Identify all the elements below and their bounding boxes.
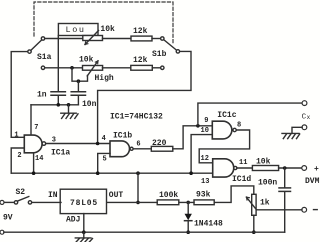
wire bottom ground rail [4,231,285,233]
svg-text:10n: 10n [82,100,97,109]
node 1k-rail [252,230,256,234]
wire IC1c pin10 [191,135,212,174]
label box Lou [58,24,98,36]
svg-text:OUT: OUT [109,191,124,200]
svg-text:7: 7 [34,124,38,132]
nand gate IC1b [110,141,133,157]
wire IC1c out loop to IC1d pin12 [199,130,249,163]
svg-text:220: 220 [152,139,167,148]
wire rail to 78L05 out [137,173,139,202]
ground symbol top-right [282,133,300,138]
wire S2 to 78L05 in [32,201,61,203]
wire Cx bottom to ground [292,127,302,133]
ground symbol bottom [75,232,92,242]
node 1n-rail [57,103,61,107]
diode 1N4148 [185,202,192,232]
node junction High row [70,66,74,70]
node pin9 [196,124,200,128]
node diode tap [186,201,190,205]
node 100n tap [283,166,287,170]
svg-text:1N4148: 1N4148 [194,220,223,229]
wire 1n cap branch vertical [57,36,59,92]
resistor 93k [194,200,214,205]
svg-text:5: 5 [103,156,107,164]
node pin10-rail [189,171,193,175]
wire IC1a out to IC1b pin4 [46,143,110,145]
battery 9V terminals [0,200,4,204]
wire High row mid [102,67,130,69]
wire ground rail mid (pin13) [11,172,213,174]
wire S1b common to IC1b pin4 node [98,51,191,143]
svg-text:S2: S2 [16,188,26,197]
wire IC1b out [133,148,151,150]
svg-text:IC1b: IC1b [113,132,132,141]
potentiometer 10k Low [83,31,103,45]
capacitor 1n [51,92,65,105]
wire Low row right [152,38,161,40]
svg-text:2: 2 [17,152,21,160]
potentiometer 10k High [83,61,103,76]
nand gate IC1a [24,135,45,153]
capacitor 100n [279,168,291,232]
node 10n tap [77,79,81,83]
wire battery to S2 [4,201,14,203]
wire 78L05 out to 100k [107,201,158,203]
svg-text:1k: 1k [260,199,270,208]
wire High row right [152,67,160,69]
svg-text:9V: 9V [3,213,13,222]
svg-text:9: 9 [204,117,208,125]
node ADJ-rail [82,230,86,234]
resistor 10k output [252,166,278,171]
wire High pot wiper tie [72,68,88,81]
resistor 12k Low [131,36,152,41]
wire IC1a pin2 [11,148,24,173]
svg-text:14: 14 [35,155,43,163]
svg-text:13: 13 [201,178,209,186]
svg-text:Lou: Lou [66,25,86,35]
node diode-rail [186,230,190,234]
svg-text:ADJ: ADJ [66,216,80,225]
svg-text:10k: 10k [256,157,271,166]
svg-text:IN: IN [48,191,58,200]
node pin5-rail [96,171,100,175]
svg-text:1: 1 [14,132,18,140]
terminal + [302,166,307,171]
terminal - [302,207,307,212]
node out wire [136,201,140,205]
svg-text:S1a: S1a [37,53,52,62]
node out-rail [136,171,140,175]
svg-text:12: 12 [201,155,209,163]
svg-text:100n: 100n [258,178,277,187]
wire IC1a pin7 [30,105,32,135]
svg-text:8: 8 [237,122,241,130]
svg-text:93k: 93k [196,190,211,199]
svg-text:DVM: DVM [305,177,320,186]
svg-text:10k: 10k [100,25,115,34]
resistor 12k High [131,65,153,70]
nand gate IC1c [212,121,236,139]
wire 1k bottom [253,215,255,232]
switch S1b [161,37,180,70]
wire High row left [45,67,83,69]
svg-text:10k: 10k [79,55,94,64]
terminal Cx top [302,101,307,106]
svg-text:1n: 1n [37,91,47,100]
potentiometer 1k [246,194,256,215]
wire Low row left [45,38,83,40]
voltage regulator 78L05 [60,189,106,213]
svg-text:100k: 100k [159,191,178,200]
svg-text:IC1d: IC1d [232,175,251,184]
svg-text:x: x [307,114,311,121]
wire 100k to 93k [179,201,194,203]
terminal Cx bottom [302,125,307,130]
switch S2 [14,197,31,205]
resistor 100k [157,200,179,205]
wire S1a common to IC1a pin1 [11,52,28,138]
wire ground rail caps [31,104,78,106]
wire 78L05 ADJ [83,214,85,233]
svg-text:78L05: 78L05 [70,199,98,208]
wire IC1d out [237,167,253,169]
svg-text:IC1c: IC1c [217,111,236,120]
node pin4 [96,142,100,146]
svg-text:IC1a: IC1a [51,148,70,157]
svg-text:12k: 12k [133,27,148,36]
wire 220 to IC1c pin9 [173,126,213,149]
svg-text:High: High [95,74,114,83]
svg-text:+: + [314,165,319,174]
wire IC1b pin5 [98,153,110,173]
node ground-rail [67,103,71,107]
capacitor 10n [71,81,85,105]
nand gate IC1d [213,159,237,177]
node pin14-rail [32,171,36,175]
ground symbol top-left [61,105,78,119]
svg-text:IC1=74HC132: IC1=74HC132 [110,113,163,122]
wire Cx top [198,103,302,126]
wire Low row mid [103,38,132,40]
svg-text:12k: 12k [133,56,148,65]
wire wiper to - terminal [256,209,302,211]
svg-text:6: 6 [136,141,140,149]
svg-text:4: 4 [102,135,106,143]
switch S1a [28,37,45,70]
wire 10k to + terminal [279,167,302,169]
svg-text:S1b: S1b [152,50,167,59]
dashed mechanical link S1a-S1b [34,2,173,43]
wire 93k to 1k top [214,186,254,203]
wire IC1a pin14 [33,153,35,173]
svg-text:11: 11 [239,159,247,167]
resistor 220 [151,146,173,151]
